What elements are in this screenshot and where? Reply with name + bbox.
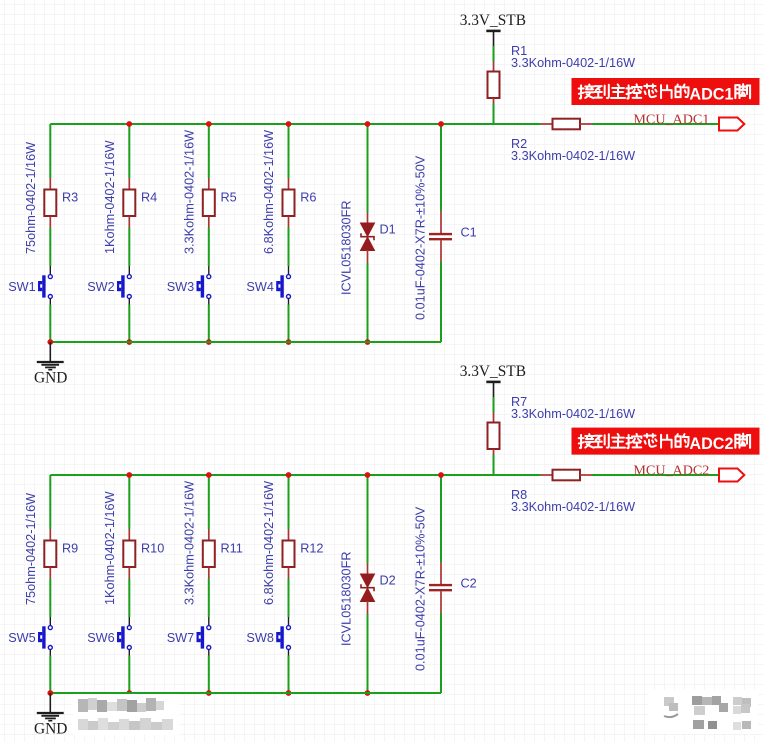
wire R5 to SW3 <box>208 228 210 267</box>
watermark left (blurred) <box>73 694 179 735</box>
svg-text:C2: C2 <box>461 576 477 590</box>
wire bus to R12 <box>288 475 290 529</box>
svg-text:1Kohm-0402-1/16W: 1Kohm-0402-1/16W <box>103 491 117 605</box>
junction top bus / D1 <box>365 121 371 127</box>
junction bottom bus / SW3 <box>206 339 212 345</box>
wire SW6 to bottom bus <box>128 656 130 694</box>
power 3.3V_STB <box>486 31 500 46</box>
svg-text:3.3V_STB: 3.3V_STB <box>460 363 526 380</box>
wire SW3 to bottom bus <box>208 305 210 343</box>
pin R5.2 <box>208 217 210 228</box>
capacitor C2 <box>429 585 452 590</box>
wire top bus <box>50 474 540 476</box>
resistor R5 <box>203 190 215 217</box>
watermark right (blurred logo) <box>648 690 758 734</box>
pin R11.2 <box>208 568 210 579</box>
wire bus to R3 <box>49 124 51 178</box>
svg-text:6.8Kohm-0402-1/16W: 6.8Kohm-0402-1/16W <box>262 130 276 254</box>
wire bus to C2 <box>440 475 442 562</box>
wire R4 to SW2 <box>128 228 130 267</box>
svg-text:R4: R4 <box>141 190 157 204</box>
wire D1 to bottom bus <box>367 263 369 342</box>
switch SW3 <box>197 275 211 299</box>
junction bottom bus / SW7 <box>206 690 212 696</box>
pin R2.1 <box>541 123 553 125</box>
switch SW8 <box>276 626 290 650</box>
switch SW2 <box>117 275 131 299</box>
pin C2.2 <box>440 591 442 613</box>
svg-text:SW6: SW6 <box>87 631 115 645</box>
svg-text:ADC1: ADC1 <box>689 85 733 103</box>
junction top bus / R11 <box>206 472 212 478</box>
wire net MCU_ADC2 <box>592 474 719 476</box>
pin SW4.2 <box>288 299 290 305</box>
junction bottom bus / SW4 <box>286 339 292 345</box>
wire C2 to bottom bus <box>440 613 442 693</box>
pin D2.2 <box>367 601 369 614</box>
svg-text:MCU_ADC2: MCU_ADC2 <box>633 462 709 478</box>
pin R4.1 <box>128 178 130 190</box>
wire SW8 to bottom bus <box>288 656 290 694</box>
junction bottom bus / D2 <box>365 690 371 696</box>
resistor R12 <box>283 541 295 568</box>
wire R3 to SW1 <box>49 228 51 267</box>
pin R12.2 <box>288 568 290 579</box>
switch SW6 <box>117 626 131 650</box>
diode D1 (TVS) <box>361 223 375 251</box>
svg-text:GND: GND <box>34 370 67 387</box>
pin D1.1 <box>367 213 369 224</box>
svg-text:R6: R6 <box>300 190 316 204</box>
svg-text:R5: R5 <box>221 190 237 204</box>
switch SW1 <box>38 275 52 299</box>
svg-text:SW2: SW2 <box>87 280 115 294</box>
switch SW4 <box>276 275 290 299</box>
pin D1.2 <box>367 250 369 263</box>
junction top bus / D2 <box>365 472 371 478</box>
wire bottom bus <box>50 692 441 694</box>
pin SW8.2 <box>288 650 290 656</box>
junction top bus / R4 <box>126 121 132 127</box>
junction bottom bus / SW6 <box>126 690 132 696</box>
resistor R6 <box>283 190 295 217</box>
pin SW6.2 <box>128 650 130 656</box>
svg-text:3.3V_STB: 3.3V_STB <box>460 12 526 29</box>
svg-text:0.01uF-0402-X7R-±10%-50V: 0.01uF-0402-X7R-±10%-50V <box>413 155 427 320</box>
svg-text:75ohm-0402-1/16W: 75ohm-0402-1/16W <box>24 142 38 254</box>
pin R11.1 <box>208 529 210 541</box>
junction top bus / R10 <box>126 472 132 478</box>
pin SW2.2 <box>128 299 130 305</box>
pin D2.1 <box>367 564 369 575</box>
svg-text:75ohm-0402-1/16W: 75ohm-0402-1/16W <box>24 493 38 605</box>
junction bottom bus / GND <box>47 339 53 345</box>
junction top bus / C1 <box>438 121 444 127</box>
pin R9.1 <box>49 529 51 541</box>
junction bottom bus / SW8 <box>286 690 292 696</box>
svg-text:R10: R10 <box>141 541 164 555</box>
pin R5.1 <box>208 178 210 190</box>
pin R6.1 <box>288 178 290 190</box>
pin C1.2 <box>440 240 442 262</box>
wire bus to R11 <box>208 475 210 529</box>
pin R7.1 <box>493 413 495 423</box>
ground <box>37 693 64 721</box>
svg-text:SW5: SW5 <box>8 631 36 645</box>
wire bus to R9 <box>49 475 51 529</box>
wire R11 to SW7 <box>208 579 210 618</box>
wire bus to R6 <box>288 124 290 178</box>
switch SW5 <box>38 626 52 650</box>
ground <box>37 342 64 370</box>
svg-text:0.01uF-0402-X7R-±10%-50V: 0.01uF-0402-X7R-±10%-50V <box>413 506 427 671</box>
wire top bus <box>50 123 540 125</box>
svg-text:3.3Kohm-0402-1/16W: 3.3Kohm-0402-1/16W <box>511 56 635 70</box>
resistor R1 <box>488 72 500 99</box>
pin R2.2 <box>580 123 592 125</box>
pin SW3.2 <box>208 299 210 305</box>
wire SW2 to bottom bus <box>128 305 130 343</box>
wire bus to D2 <box>367 475 369 564</box>
resistor R4 <box>123 190 135 217</box>
junction bottom bus / SW2 <box>126 339 132 345</box>
wire R6 to SW4 <box>288 228 290 267</box>
pin R3.1 <box>49 178 51 190</box>
wire bus to R4 <box>128 124 130 178</box>
pin R8.2 <box>580 474 592 476</box>
svg-text:C1: C1 <box>461 225 477 239</box>
pin SW3.1 <box>208 266 210 274</box>
svg-text:R11: R11 <box>221 541 243 555</box>
pin C1.1 <box>440 211 442 233</box>
svg-text:MCU_ADC1: MCU_ADC1 <box>633 111 709 127</box>
junction top bus / R6 <box>286 121 292 127</box>
wire R12 to SW8 <box>288 579 290 618</box>
svg-text:SW3: SW3 <box>167 280 195 294</box>
wire 3.3V_STB to R7 <box>493 397 495 413</box>
pin R10.1 <box>128 529 130 541</box>
pin SW6.1 <box>128 617 130 625</box>
resistor R3 <box>44 190 56 217</box>
svg-text:D2: D2 <box>380 574 396 588</box>
svg-text:SW8: SW8 <box>246 631 274 645</box>
pin SW2.1 <box>128 266 130 274</box>
pin R1.2 <box>493 98 495 104</box>
wire SW1 to bottom bus <box>49 305 51 343</box>
junction bottom bus / D1 <box>365 339 371 345</box>
wire C1 to bottom bus <box>440 262 442 342</box>
wire bus to R10 <box>128 475 130 529</box>
wire net MCU_ADC1 <box>592 123 719 125</box>
svg-text:ICVL0518030FR: ICVL0518030FR <box>340 551 354 646</box>
pin R9.2 <box>49 568 51 579</box>
wire bus to C1 <box>440 124 442 211</box>
wire R9 to SW5 <box>49 579 51 618</box>
wire D2 to bottom bus <box>367 614 369 693</box>
wire R1 to bus <box>493 104 495 125</box>
pin R3.2 <box>49 217 51 228</box>
wire 3.3V_STB to R1 <box>493 46 495 62</box>
junction top bus / R12 <box>286 472 292 478</box>
svg-text:D1: D1 <box>380 223 396 237</box>
pin SW8.1 <box>288 617 290 625</box>
svg-text:SW4: SW4 <box>246 280 274 294</box>
wire SW7 to bottom bus <box>208 656 210 694</box>
pin C2.1 <box>440 562 442 584</box>
svg-text:R9: R9 <box>62 541 78 555</box>
junction top bus / R5 <box>206 121 212 127</box>
diode D2 (TVS) <box>361 574 375 602</box>
junction top bus / C2 <box>438 472 444 478</box>
pin R12.1 <box>288 529 290 541</box>
svg-text:ICVL0518030FR: ICVL0518030FR <box>340 200 354 295</box>
port MCU_ADC2 <box>719 469 744 482</box>
pin SW4.1 <box>288 266 290 274</box>
svg-text:3.3Kohm-0402-1/16W: 3.3Kohm-0402-1/16W <box>183 130 197 254</box>
pin SW1.2 <box>49 299 51 305</box>
junction bottom bus / GND <box>47 690 53 696</box>
svg-text:1Kohm-0402-1/16W: 1Kohm-0402-1/16W <box>103 140 117 254</box>
pin R8.1 <box>541 474 553 476</box>
resistor R7 <box>488 423 500 450</box>
svg-text:SW1: SW1 <box>8 280 36 294</box>
wire R10 to SW6 <box>128 579 130 618</box>
pin SW7.1 <box>208 617 210 625</box>
svg-text:3.3Kohm-0402-1/16W: 3.3Kohm-0402-1/16W <box>511 407 635 421</box>
svg-text:3.3Kohm-0402-1/16W: 3.3Kohm-0402-1/16W <box>511 149 635 163</box>
pin SW5.1 <box>49 617 51 625</box>
wire SW5 to bottom bus <box>49 656 51 694</box>
annotation banner: 接到主控芯片的ADC1脚 <box>572 78 760 105</box>
pin SW7.2 <box>208 650 210 656</box>
power 3.3V_STB <box>486 382 500 397</box>
wire SW4 to bottom bus <box>288 305 290 343</box>
svg-text:R12: R12 <box>300 541 323 555</box>
svg-text:SW7: SW7 <box>167 631 195 645</box>
resistor R9 <box>44 541 56 568</box>
svg-text:GND: GND <box>34 721 67 738</box>
pin SW5.2 <box>49 650 51 656</box>
wire bus to R5 <box>208 124 210 178</box>
wire bottom bus <box>50 341 441 343</box>
svg-text:R3: R3 <box>62 190 78 204</box>
svg-text:ADC2: ADC2 <box>689 435 733 453</box>
resistor R2 <box>553 119 581 130</box>
annotation banner: 接到主控芯片的ADC2脚 <box>572 428 760 455</box>
pin R10.2 <box>128 568 130 579</box>
pin R6.2 <box>288 217 290 228</box>
wire R7 to bus <box>493 455 495 476</box>
capacitor C1 <box>429 234 452 239</box>
resistor R8 <box>553 470 581 481</box>
pin SW1.1 <box>49 266 51 274</box>
resistor R11 <box>203 541 215 568</box>
svg-text:3.3Kohm-0402-1/16W: 3.3Kohm-0402-1/16W <box>511 500 635 514</box>
wire bus to D1 <box>367 124 369 213</box>
switch SW7 <box>197 626 211 650</box>
svg-text:3.3Kohm-0402-1/16W: 3.3Kohm-0402-1/16W <box>183 481 197 605</box>
pin R7.2 <box>493 449 495 455</box>
resistor R10 <box>123 541 135 568</box>
pin R1.1 <box>493 62 495 72</box>
svg-text:6.8Kohm-0402-1/16W: 6.8Kohm-0402-1/16W <box>262 481 276 605</box>
port MCU_ADC1 <box>719 118 744 131</box>
pin R4.2 <box>128 217 130 228</box>
